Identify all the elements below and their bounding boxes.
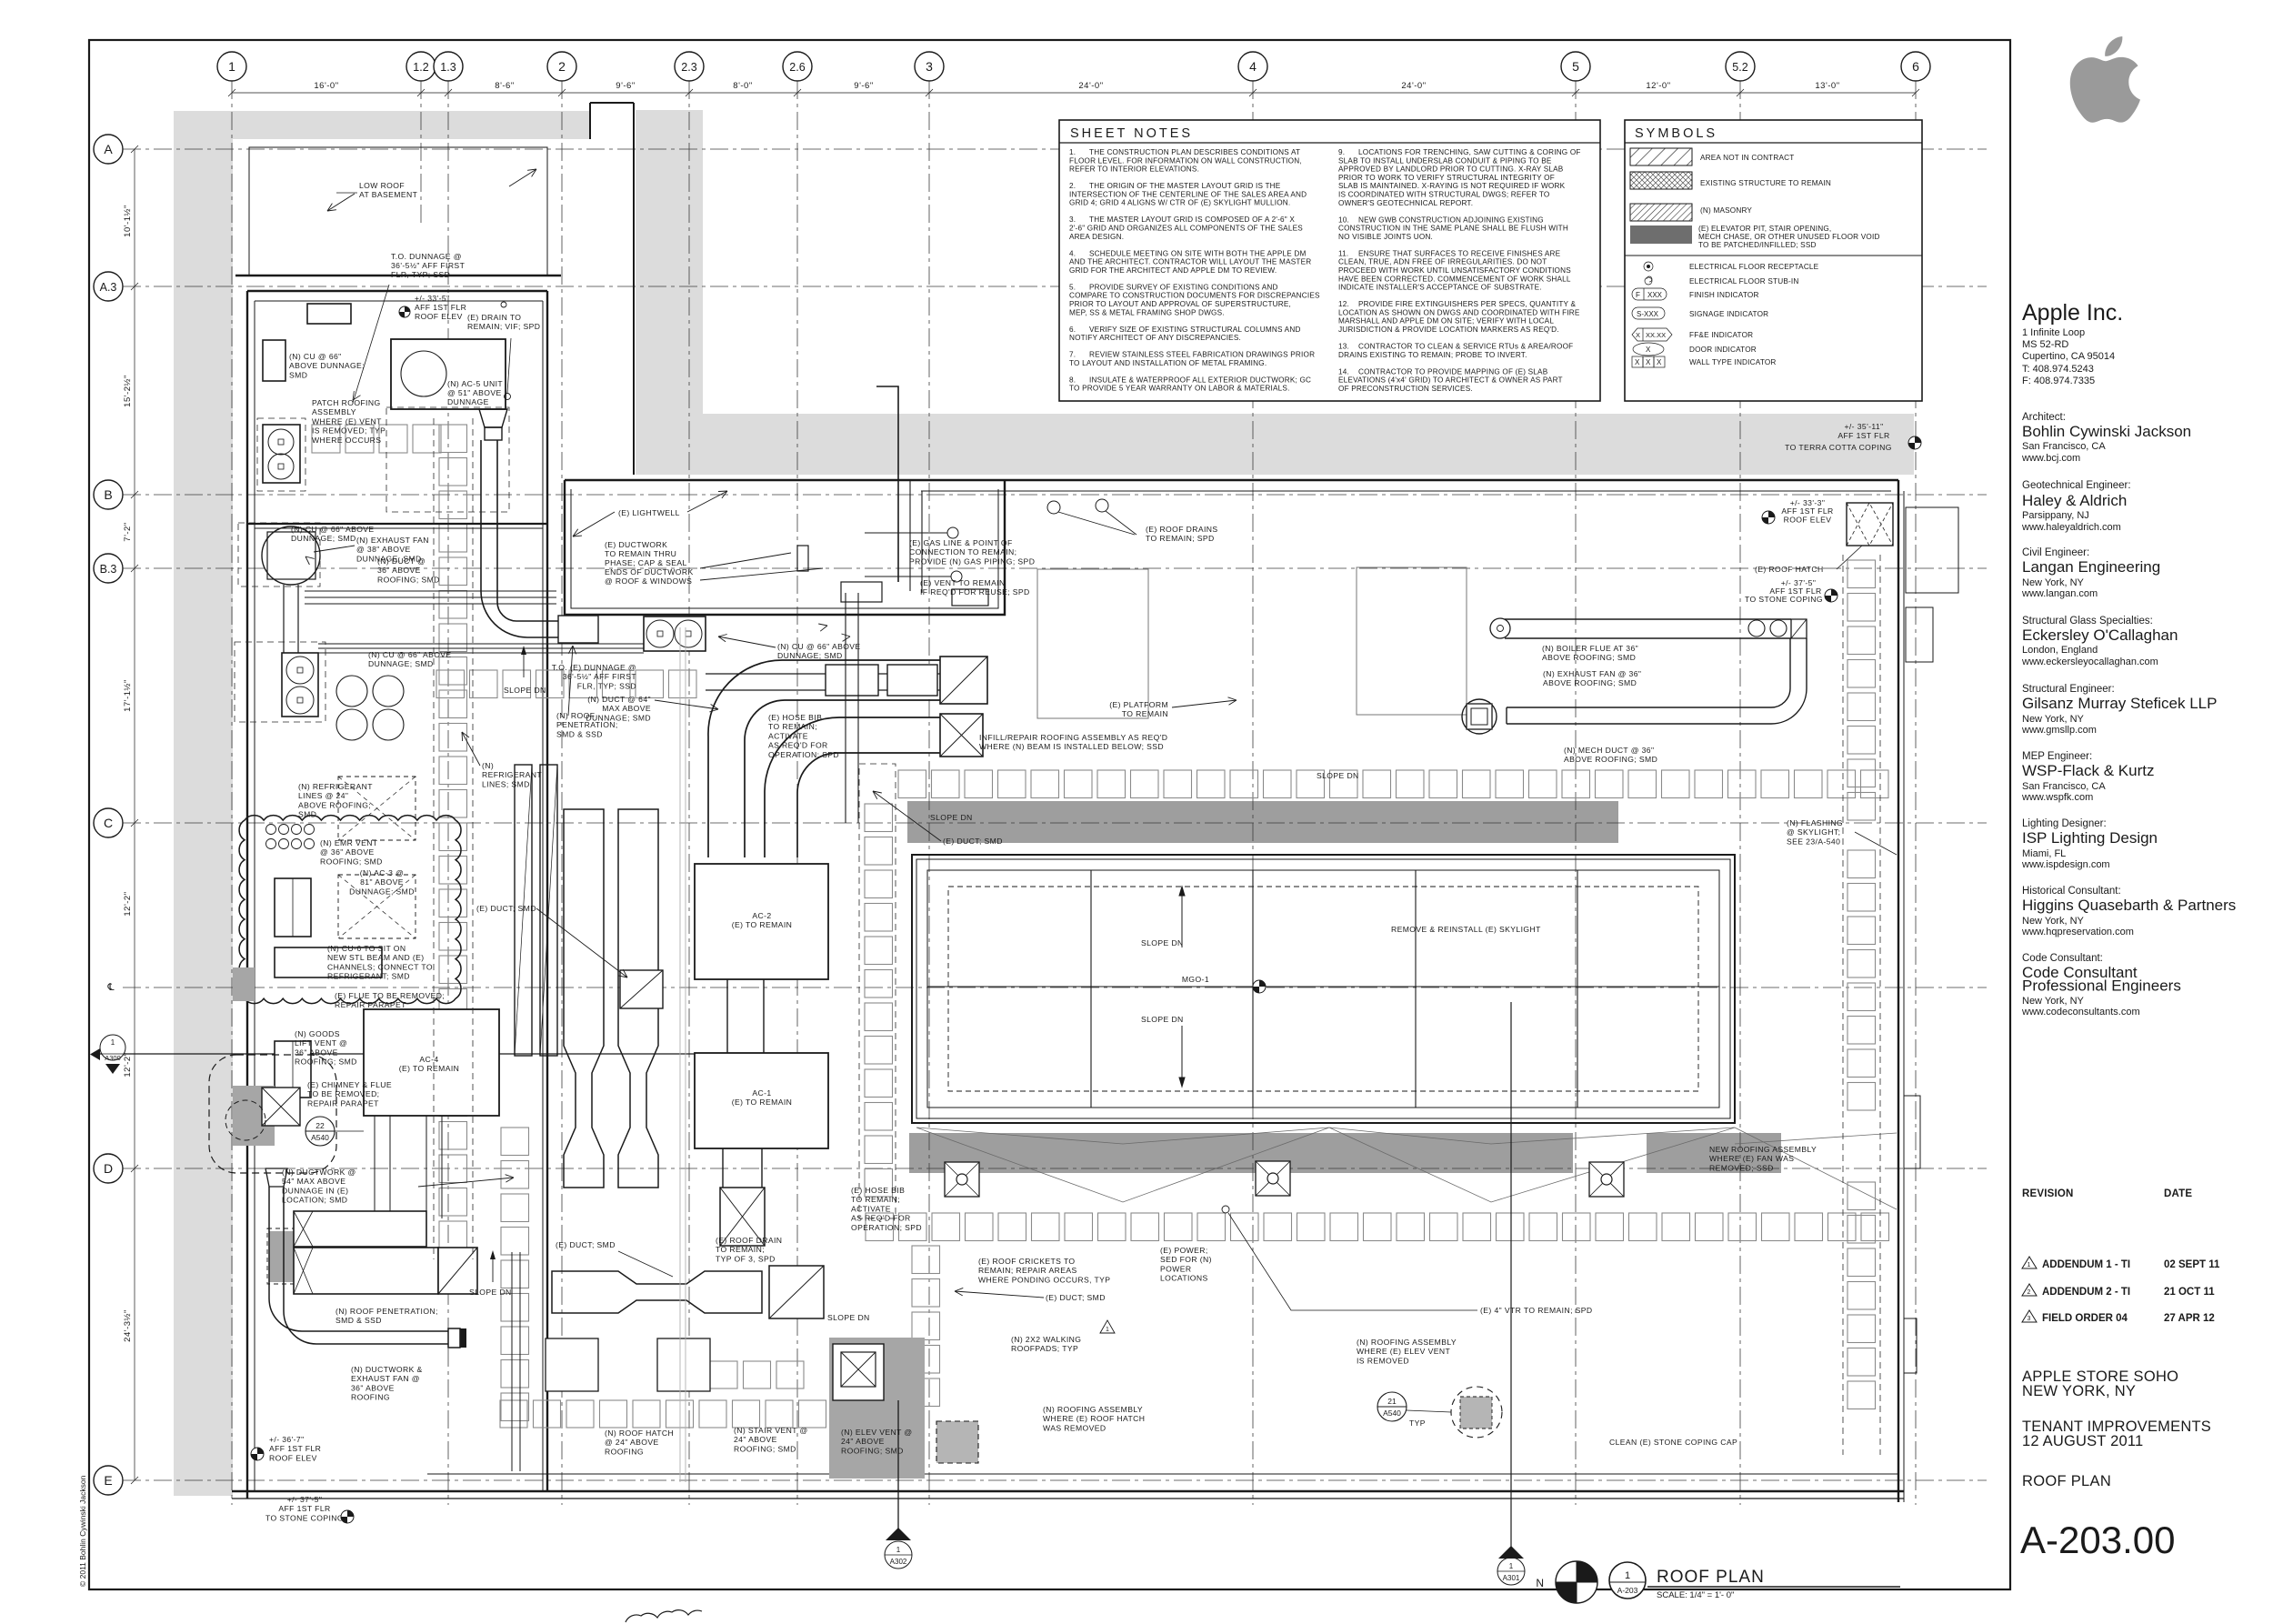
svg-text:SMD: SMD: [289, 370, 307, 379]
svg-text:ACTIVATE: ACTIVATE: [851, 1204, 891, 1213]
svg-text:9'-6": 9'-6": [616, 81, 635, 91]
svg-text:IS REMOVED: IS REMOVED: [1357, 1356, 1409, 1365]
svg-text:FINISH INDICATOR: FINISH INDICATOR: [1689, 291, 1759, 299]
svg-text:1: 1: [111, 1038, 115, 1047]
svg-text:B.3: B.3: [100, 563, 117, 576]
svg-text:6: 6: [1912, 59, 1919, 74]
svg-text:PHASE; CAP & SEAL: PHASE; CAP & SEAL: [605, 558, 687, 567]
svg-text:A-203.00: A-203.00: [2020, 1519, 2175, 1561]
svg-text:(E) TO REMAIN: (E) TO REMAIN: [732, 920, 792, 929]
svg-text:ACTIVATE: ACTIVATE: [768, 731, 808, 740]
svg-text:(E) VENT TO REMAIN: (E) VENT TO REMAIN: [920, 578, 1006, 587]
svg-text:AT BASEMENT: AT BASEMENT: [359, 190, 418, 199]
svg-text:A.3: A.3: [100, 281, 117, 294]
svg-text:SLAB IS MAINTAINED. X-RAYING I: SLAB IS MAINTAINED. X-RAYING IS NOT REQU…: [1338, 182, 1566, 190]
svg-text:CONTRACTOR TO PROVIDE MAPPING: CONTRACTOR TO PROVIDE MAPPING OF (E) SLA…: [1358, 367, 1548, 376]
svg-text:N: N: [1536, 1577, 1544, 1589]
svg-text:Miami, FL: Miami, FL: [2022, 848, 2066, 859]
svg-text:Bohlin Cywinski Jackson: Bohlin Cywinski Jackson: [2022, 423, 2191, 440]
svg-text:ENSURE THAT SURFACES TO RECEIV: ENSURE THAT SURFACES TO RECEIVE FINISHES…: [1358, 249, 1561, 257]
svg-text:ASSEMBLY: ASSEMBLY: [312, 407, 356, 416]
svg-text:ROOF PLAN: ROOF PLAN: [1657, 1568, 1765, 1587]
svg-text:www.gmsllp.com: www.gmsllp.com: [2021, 725, 2097, 736]
svg-text:CLEAN, TRUE, ADN FREE OF IRREG: CLEAN, TRUE, ADN FREE OF IRREGULARITIES.…: [1338, 258, 1547, 266]
svg-text:TO BE PATCHED/INFILLED; SSD: TO BE PATCHED/INFILLED; SSD: [1698, 241, 1817, 249]
svg-text:F: F: [1636, 291, 1640, 299]
svg-text:ENDS OF DUCTWORK: ENDS OF DUCTWORK: [605, 567, 694, 576]
svg-text:3.: 3.: [1069, 216, 1076, 224]
svg-text:TO TERRA COTTA COPING: TO TERRA COTTA COPING: [1785, 443, 1892, 452]
svg-text:ABOVE ROOFING;: ABOVE ROOFING;: [298, 800, 371, 809]
svg-text:Architect:: Architect:: [2022, 412, 2066, 423]
svg-text:2.: 2.: [1069, 182, 1076, 190]
svg-text:AS REQ'D FOR: AS REQ'D FOR: [768, 741, 828, 750]
svg-text:(N) ROOF HATCH: (N) ROOF HATCH: [605, 1429, 674, 1438]
svg-text:PROVIDE FIRE EXTINGUISHERS PER: PROVIDE FIRE EXTINGUISHERS PER SPECS, QU…: [1358, 300, 1577, 308]
svg-text:(N) BOILER FLUE AT 36": (N) BOILER FLUE AT 36": [1542, 644, 1638, 653]
svg-text:SLOPE DN: SLOPE DN: [1141, 938, 1184, 947]
svg-text:24" ABOVE: 24" ABOVE: [734, 1435, 777, 1444]
svg-text:(E) DRAIN TO: (E) DRAIN TO: [467, 313, 521, 322]
svg-text:(E) POWER;: (E) POWER;: [1160, 1246, 1208, 1255]
svg-text:EXHAUST FAN @: EXHAUST FAN @: [351, 1374, 420, 1383]
svg-text:TO REMAIN;: TO REMAIN;: [716, 1245, 765, 1254]
svg-text:NOTIFY ARCHITECT OF ANY DISCRE: NOTIFY ARCHITECT OF ANY DISCREPANCIES.: [1069, 334, 1241, 342]
svg-text:WHERE (E) FAN WAS: WHERE (E) FAN WAS: [1709, 1154, 1794, 1163]
svg-text:LOCATIONS FOR TRENCHING, SAW C: LOCATIONS FOR TRENCHING, SAW CUTTING & C…: [1358, 148, 1581, 156]
svg-text:GRID 4; GRID 4 ALIGNS W/ CTR O: GRID 4; GRID 4 ALIGNS W/ CTR OF (E) SKYL…: [1069, 199, 1290, 207]
svg-text:(E) TO REMAIN: (E) TO REMAIN: [732, 1098, 792, 1107]
svg-text:(E) LIGHTWELL: (E) LIGHTWELL: [618, 508, 680, 517]
svg-text:IS COORDINATED WITH STRUCTURAL: IS COORDINATED WITH STRUCTURAL DWGS; REF…: [1338, 191, 1550, 199]
svg-text:(N) FLASHING: (N) FLASHING: [1787, 818, 1843, 827]
svg-text:NEW GWB CONSTRUCTION ADJOINING: NEW GWB CONSTRUCTION ADJOINING EXISTING: [1358, 216, 1544, 224]
svg-text:SMD & SSD: SMD & SSD: [335, 1316, 382, 1325]
svg-text:3: 3: [2028, 1316, 2031, 1322]
svg-text:(N) GOODS: (N) GOODS: [295, 1029, 340, 1038]
svg-text:San Francisco, CA: San Francisco, CA: [2022, 781, 2106, 792]
svg-text:(N) ELEV VENT @: (N) ELEV VENT @: [841, 1428, 913, 1437]
svg-text:ROOF ELEV: ROOF ELEV: [1784, 515, 1832, 524]
svg-text:36" ABOVE: 36" ABOVE: [295, 1048, 338, 1057]
svg-text:ELECTRICAL FLOOR STUB-IN: ELECTRICAL FLOOR STUB-IN: [1689, 277, 1799, 286]
svg-text:(E) 4" VTR TO REMAIN; SPD: (E) 4" VTR TO REMAIN; SPD: [1480, 1306, 1593, 1315]
svg-text:1: 1: [896, 1546, 901, 1554]
svg-text:ROOFING: ROOFING: [351, 1393, 390, 1402]
svg-text:MEP, SS & METAL FRAMING SHOP D: MEP, SS & METAL FRAMING SHOP DWGS.: [1069, 308, 1225, 316]
svg-text:2: 2: [558, 59, 566, 74]
svg-text:REFRIGERANT: REFRIGERANT: [482, 770, 542, 779]
svg-text:TO REMAIN;: TO REMAIN;: [768, 722, 817, 731]
svg-text:(N): (N): [482, 761, 494, 770]
svg-text:24'-3½": 24'-3½": [123, 1309, 133, 1342]
svg-text:AS REQ'D FOR: AS REQ'D FOR: [851, 1214, 911, 1223]
svg-text:TO STONE COPING: TO STONE COPING: [1745, 595, 1823, 604]
svg-text:36'-5½" AFF FIRST: 36'-5½" AFF FIRST: [391, 261, 466, 270]
svg-text:ABOVE ROOFING; SMD: ABOVE ROOFING; SMD: [1543, 678, 1637, 687]
svg-text:AC-2: AC-2: [752, 911, 771, 920]
svg-text:Code Consultant:: Code Consultant:: [2022, 953, 2103, 964]
svg-text:INFILL/REPAIR ROOFING ASSEMBLY: INFILL/REPAIR ROOFING ASSEMBLY AS REQ'D: [979, 733, 1167, 742]
svg-text:@ 38" ABOVE: @ 38" ABOVE: [356, 545, 411, 554]
svg-text:2: 2: [2028, 1289, 2031, 1296]
svg-text:PATCH ROOFING: PATCH ROOFING: [312, 398, 381, 407]
svg-text:WSP-Flack & Kurtz: WSP-Flack & Kurtz: [2022, 762, 2154, 779]
svg-text:D: D: [104, 1161, 113, 1176]
svg-text:FIELD ORDER 04: FIELD ORDER 04: [2042, 1313, 2128, 1324]
svg-text:WHERE (E) VENT: WHERE (E) VENT: [312, 416, 382, 426]
svg-text:(N) EMR VENT: (N) EMR VENT: [320, 838, 378, 847]
svg-text:9'-6": 9'-6": [854, 81, 873, 91]
svg-text:Langan Engineering: Langan Engineering: [2022, 558, 2160, 576]
svg-text:WHERE (E) ROOF HATCH: WHERE (E) ROOF HATCH: [1043, 1414, 1145, 1423]
svg-text:(E) CHIMNEY & FLUE: (E) CHIMNEY & FLUE: [307, 1080, 392, 1089]
svg-text:7'-2": 7'-2": [123, 522, 133, 541]
svg-text:27 APR 12: 27 APR 12: [2164, 1313, 2215, 1324]
svg-text:A300: A300: [105, 1054, 121, 1062]
svg-text:1: 1: [228, 59, 235, 74]
svg-text:(N) DUCTWORK @: (N) DUCTWORK @: [282, 1168, 356, 1177]
svg-text:DUNNAGE; SMD: DUNNAGE; SMD: [586, 713, 651, 722]
svg-text:+/- 37'-5": +/- 37'-5": [287, 1495, 323, 1504]
svg-text:C: C: [104, 816, 113, 830]
svg-text:(N) CU @ 66" ABOVE: (N) CU @ 66" ABOVE: [291, 525, 375, 534]
svg-text:SLOPE DN: SLOPE DN: [930, 813, 973, 822]
svg-text:AREA DESIGN.: AREA DESIGN.: [1069, 233, 1124, 241]
svg-text:www.codeconsultants.com: www.codeconsultants.com: [2021, 1007, 2140, 1018]
svg-text:(E) ELEVATOR PIT, STAIR OPENIN: (E) ELEVATOR PIT, STAIR OPENING,: [1698, 225, 1831, 233]
svg-text:AREA NOT IN CONTRACT: AREA NOT IN CONTRACT: [1700, 154, 1794, 162]
svg-text:THE CONSTRUCTION PLAN DESCRIBE: THE CONSTRUCTION PLAN DESCRIBES CONDITIO…: [1089, 148, 1300, 156]
svg-text:MECH CHASE, OR OTHER UNUSED FL: MECH CHASE, OR OTHER UNUSED FLOOR VOID: [1698, 233, 1880, 241]
svg-text:(N) DUCT @ 64": (N) DUCT @ 64": [587, 695, 651, 704]
svg-text:MEP Engineer:: MEP Engineer:: [2022, 751, 2092, 762]
svg-text:(N) ROOFING ASSEMBLY: (N) ROOFING ASSEMBLY: [1357, 1338, 1457, 1347]
svg-text:WHERE PONDING OCCURS, TYP: WHERE PONDING OCCURS, TYP: [978, 1275, 1110, 1284]
svg-text:ELEVATIONS (4'x4' GRID) TO ARC: ELEVATIONS (4'x4' GRID) TO ARCHITECT & O…: [1338, 376, 1563, 385]
svg-text:NEW ROOFING ASSEMBLY: NEW ROOFING ASSEMBLY: [1709, 1145, 1817, 1154]
svg-text:ROOFPADS; TYP: ROOFPADS; TYP: [1011, 1344, 1078, 1353]
svg-text:DUNNAGE; SMD: DUNNAGE; SMD: [368, 659, 434, 668]
svg-text:SMD: SMD: [298, 810, 316, 819]
svg-text:(N) CU @ 66" ABOVE: (N) CU @ 66" ABOVE: [777, 642, 861, 651]
svg-text:(N) MASONRY: (N) MASONRY: [1700, 206, 1752, 215]
svg-text:LOW ROOF: LOW ROOF: [359, 181, 405, 190]
svg-text:(N) DUCTWORK &: (N) DUCTWORK &: [351, 1365, 423, 1374]
svg-text:TO REMAIN;: TO REMAIN;: [851, 1195, 900, 1204]
svg-text:ROOFING; SMD: ROOFING; SMD: [841, 1446, 904, 1455]
svg-text:10'-1½": 10'-1½": [123, 205, 133, 237]
svg-text:Structural Engineer:: Structural Engineer:: [2022, 684, 2115, 695]
svg-text:INDICATE INSTALLER'S ACCEPTANC: INDICATE INSTALLER'S ACCEPTANCE OF SUBST…: [1338, 284, 1542, 292]
svg-text:8'-0": 8'-0": [733, 81, 752, 91]
svg-text:A301: A301: [1503, 1574, 1520, 1582]
svg-text:(N) MECH DUCT @ 36": (N) MECH DUCT @ 36": [1564, 746, 1654, 755]
svg-text:X: X: [1646, 346, 1651, 354]
svg-text:(N) REFRIGERANT: (N) REFRIGERANT: [298, 782, 373, 791]
svg-text:5: 5: [1572, 59, 1579, 74]
svg-text:SMD & SSD: SMD & SSD: [556, 729, 603, 738]
svg-text:ISP Lighting Design: ISP Lighting Design: [2022, 829, 2158, 847]
svg-text:www.bcj.com: www.bcj.com: [2021, 453, 2080, 464]
svg-text:WHERE (N) BEAM IS INSTALLED BE: WHERE (N) BEAM IS INSTALLED BELOW; SSD: [979, 742, 1164, 751]
svg-text:LOCATION AS SHOWN ON DWGS AND: LOCATION AS SHOWN ON DWGS AND COORDINATE…: [1338, 308, 1580, 316]
svg-text:Haley & Aldrich: Haley & Aldrich: [2022, 492, 2127, 509]
svg-text:1 Infinite Loop: 1 Infinite Loop: [2022, 327, 2085, 338]
svg-text:(N) EXHAUST FAN @ 36": (N) EXHAUST FAN @ 36": [1543, 669, 1641, 678]
svg-text:A540: A540: [311, 1133, 329, 1142]
svg-text:CONTRACTOR TO CLEAN & SERVICE: CONTRACTOR TO CLEAN & SERVICE RTUs & ARE…: [1358, 343, 1573, 351]
svg-text:CONSTRUCTION IN THE SAME PLANE: CONSTRUCTION IN THE SAME PLANE SHALL BE …: [1338, 225, 1568, 233]
svg-text:ABOVE ROOFING; SMD: ABOVE ROOFING; SMD: [1564, 755, 1657, 764]
svg-text:DUNNAGE; SMD: DUNNAGE; SMD: [291, 534, 356, 543]
svg-text:© 2011 Bohlin Cywinski Jackson: © 2011 Bohlin Cywinski Jackson: [78, 1475, 87, 1587]
svg-text:www.wspfk.com: www.wspfk.com: [2021, 792, 2093, 803]
svg-text:12'-0": 12'-0": [1646, 81, 1670, 91]
svg-text:Professional Engineers: Professional Engineers: [2022, 977, 2181, 995]
svg-text:IF REQ'D FOR REUSE; SPD: IF REQ'D FOR REUSE; SPD: [920, 587, 1030, 596]
svg-text:SLOPE DN: SLOPE DN: [469, 1288, 512, 1297]
svg-text:REMAIN; VIF; SPD: REMAIN; VIF; SPD: [467, 322, 540, 331]
svg-text:A-203: A-203: [1617, 1586, 1638, 1595]
svg-text:4: 4: [1249, 59, 1257, 74]
svg-text:ROOF PLAN: ROOF PLAN: [2022, 1473, 2111, 1489]
svg-text:T.O. DUNNAGE @: T.O. DUNNAGE @: [391, 252, 462, 261]
svg-text:OPERATION; SPD: OPERATION; SPD: [768, 750, 839, 759]
svg-text:15'-2½": 15'-2½": [123, 375, 133, 407]
svg-text:(N) 2X2 WALKING: (N) 2X2 WALKING: [1011, 1335, 1081, 1344]
svg-text:WALL TYPE INDICATOR: WALL TYPE INDICATOR: [1689, 358, 1777, 366]
svg-text:TO BE REMOVED;: TO BE REMOVED;: [307, 1089, 379, 1098]
svg-text:XXX: XXX: [1647, 291, 1663, 299]
svg-text:Cupertino, CA 95014: Cupertino, CA 95014: [2022, 351, 2115, 362]
svg-text:(E) HOSE BIB: (E) HOSE BIB: [851, 1186, 905, 1195]
svg-text:AC-1: AC-1: [752, 1088, 771, 1098]
svg-text:REPAIR PARAPET: REPAIR PARAPET: [307, 1098, 379, 1108]
svg-text:AFF 1ST FLR: AFF 1ST FLR: [278, 1504, 330, 1513]
svg-text:A540: A540: [1383, 1408, 1401, 1418]
svg-text:22: 22: [315, 1121, 325, 1130]
svg-text:@ 36" ABOVE: @ 36" ABOVE: [320, 847, 375, 857]
svg-text:+/- 35'-11": +/- 35'-11": [1844, 422, 1883, 431]
svg-text:San Francisco, CA: San Francisco, CA: [2022, 441, 2106, 452]
svg-text:36" ABOVE: 36" ABOVE: [351, 1383, 395, 1392]
svg-text:12'-2": 12'-2": [123, 1052, 133, 1077]
svg-text:TO LAYOUT AND INSTALLATION OF: TO LAYOUT AND INSTALLATION OF METAL FRAM…: [1069, 359, 1267, 367]
svg-text:(N) STAIR VENT @: (N) STAIR VENT @: [734, 1426, 808, 1435]
svg-text:JURISDICTION & PROVIDE LOCATIO: JURISDICTION & PROVIDE LOCATION MARKERS …: [1338, 326, 1559, 334]
svg-text:(N) ROOF PENETRATION;: (N) ROOF PENETRATION;: [335, 1307, 438, 1316]
svg-text:TO PROVIDE 5 YEAR WARRANTY ON: TO PROVIDE 5 YEAR WARRANTY ON LABOR & MA…: [1069, 385, 1290, 393]
svg-text:www.hqpreservation.com: www.hqpreservation.com: [2021, 927, 2134, 937]
svg-text:DRAINS EXISTING TO REMAIN; PRO: DRAINS EXISTING TO REMAIN; PROBE TO INVE…: [1338, 351, 1527, 359]
svg-text:ADDENDUM 1 - TI: ADDENDUM 1 - TI: [2042, 1259, 2130, 1270]
svg-text:MGO-1: MGO-1: [1182, 975, 1209, 984]
svg-text:FF&E INDICATOR: FF&E INDICATOR: [1689, 331, 1753, 339]
svg-text:AFF 1ST FLR: AFF 1ST FLR: [415, 303, 466, 312]
svg-text:New York, NY: New York, NY: [2022, 996, 2085, 1007]
svg-text:NEW YORK, NY: NEW YORK, NY: [2022, 1383, 2136, 1399]
svg-text:ROOF ELEV: ROOF ELEV: [415, 312, 463, 321]
svg-text:1.2: 1.2: [413, 61, 428, 74]
svg-text:(E) PLATFORM: (E) PLATFORM: [1109, 700, 1168, 709]
svg-text:Geotechnical Engineer:: Geotechnical Engineer:: [2022, 480, 2131, 491]
svg-text:PRIOR TO LAYOUT AND APPROVAL O: PRIOR TO LAYOUT AND APPROVAL OF SUPERSTR…: [1069, 300, 1291, 308]
svg-text:(E) DUCT; SMD: (E) DUCT; SMD: [476, 904, 536, 913]
svg-text:(E) FLUE TO BE REMOVED;: (E) FLUE TO BE REMOVED;: [335, 991, 445, 1000]
svg-text:X: X: [1646, 358, 1651, 366]
svg-text:(E) DUCTWORK: (E) DUCTWORK: [605, 540, 667, 549]
svg-text:ADDENDUM 2 - TI: ADDENDUM 2 - TI: [2042, 1287, 2130, 1298]
svg-text:X: X: [1636, 331, 1640, 339]
svg-text:REPAIR PARAPET: REPAIR PARAPET: [335, 1000, 406, 1009]
svg-text:OF PRECONSTRUCTION SERVICES.: OF PRECONSTRUCTION SERVICES.: [1338, 385, 1473, 393]
svg-text:www.langan.com: www.langan.com: [2021, 588, 2098, 599]
svg-text:14.: 14.: [1338, 367, 1349, 376]
svg-text:WAS REMOVED: WAS REMOVED: [1043, 1423, 1106, 1432]
svg-text:PROVIDE SURVEY OF EXISTING CON: PROVIDE SURVEY OF EXISTING CONDITIONS AN…: [1089, 283, 1278, 291]
svg-text:LIFT VENT @: LIFT VENT @: [295, 1038, 347, 1048]
svg-text:T.O. (E) DUNNAGE @: T.O. (E) DUNNAGE @: [552, 663, 636, 672]
svg-text:SLOPE DN: SLOPE DN: [1141, 1015, 1184, 1024]
svg-text:NO VISIBLE JOINTS UON.: NO VISIBLE JOINTS UON.: [1338, 233, 1433, 241]
svg-text:AC-4: AC-4: [419, 1055, 438, 1064]
svg-text:MAX ABOVE: MAX ABOVE: [602, 704, 651, 713]
svg-text:1.3: 1.3: [440, 61, 456, 74]
svg-text:SED FOR (N): SED FOR (N): [1160, 1255, 1212, 1264]
svg-text:XX.XX: XX.XX: [1646, 331, 1666, 339]
svg-text:CLEAN (E) STONE COPING CAP: CLEAN (E) STONE COPING CAP: [1609, 1438, 1737, 1447]
svg-text:ROOFING; SMD: ROOFING; SMD: [295, 1058, 357, 1067]
svg-text:LOCATIONS: LOCATIONS: [1160, 1274, 1208, 1283]
svg-text:81" ABOVE: 81" ABOVE: [360, 877, 404, 887]
svg-text:17'-1½": 17'-1½": [123, 679, 133, 712]
svg-text:6.: 6.: [1069, 326, 1076, 334]
svg-text:2.6: 2.6: [789, 61, 805, 74]
svg-text:(E) ROOF DRAIN: (E) ROOF DRAIN: [716, 1236, 782, 1245]
svg-text:@ 51" ABOVE: @ 51" ABOVE: [447, 388, 502, 397]
svg-text:COMPARE TO CONSTRUCTION DOCUME: COMPARE TO CONSTRUCTION DOCUMENTS FOR DI…: [1069, 292, 1320, 300]
svg-text:New York, NY: New York, NY: [2022, 577, 2085, 588]
svg-text:5.2: 5.2: [1732, 61, 1747, 74]
svg-text:PROVIDE (N) GAS PIPING; SPD: PROVIDE (N) GAS PIPING; SPD: [909, 556, 1035, 566]
svg-text:11.: 11.: [1338, 249, 1348, 257]
svg-text:+/- 36'-7": +/- 36'-7": [269, 1435, 305, 1444]
svg-text:REMOVED; SSD: REMOVED; SSD: [1709, 1163, 1774, 1172]
svg-text:DUNNAGE: DUNNAGE: [447, 397, 489, 406]
svg-text:A302: A302: [890, 1558, 907, 1566]
svg-text:OWNER'S GEOTECHNICAL REPORT.: OWNER'S GEOTECHNICAL REPORT.: [1338, 199, 1473, 207]
svg-text:(E) ROOF HATCH: (E) ROOF HATCH: [1755, 565, 1824, 574]
svg-text:ROOFING; SMD: ROOFING; SMD: [320, 857, 383, 866]
svg-text:8'-6": 8'-6": [495, 81, 514, 91]
svg-text:SCHEDULE MEETING ON SITE WITH: SCHEDULE MEETING ON SITE WITH BOTH THE A…: [1089, 249, 1307, 257]
svg-text:AFF 1ST FLR: AFF 1ST FLR: [269, 1444, 321, 1453]
svg-text:EXISTING STRUCTURE TO REMAIN: EXISTING STRUCTURE TO REMAIN: [1700, 179, 1831, 187]
svg-text:VERIFY SIZE OF EXISTING STRUCT: VERIFY SIZE OF EXISTING STRUCTURAL COLUM…: [1089, 326, 1301, 334]
svg-text:24" ABOVE: 24" ABOVE: [841, 1437, 885, 1446]
svg-text:13.: 13.: [1338, 343, 1349, 351]
svg-text:PROCEED WITH WORK UNTIL UNSATI: PROCEED WITH WORK UNTIL UNSATISFACTORY C…: [1338, 266, 1571, 275]
svg-text:GRID FOR THE ARCHITECT AND APP: GRID FOR THE ARCHITECT AND APPLE DM TO R…: [1069, 266, 1277, 275]
svg-text:SLAB TO INSTALL UNDERSLAB COND: SLAB TO INSTALL UNDERSLAB CONDUIT & PIPI…: [1338, 156, 1552, 165]
svg-text:APPROVED BY LANDLORD PRIOR TO: APPROVED BY LANDLORD PRIOR TO CUTTING. X…: [1338, 165, 1564, 174]
svg-text:(E) DUCT; SMD: (E) DUCT; SMD: [1046, 1293, 1106, 1302]
svg-text:TO REMAIN: TO REMAIN: [1122, 709, 1168, 718]
svg-text:@ SKYLIGHT;: @ SKYLIGHT;: [1787, 827, 1840, 837]
svg-text:LINES; SMD: LINES; SMD: [482, 779, 530, 788]
svg-text:DUNNAGE IN (E): DUNNAGE IN (E): [282, 1186, 348, 1195]
svg-text:LINES @ 24": LINES @ 24": [298, 791, 348, 800]
svg-text:ROOFING: ROOFING: [605, 1447, 644, 1456]
svg-text:AFF 1ST FLR: AFF 1ST FLR: [1837, 431, 1889, 440]
svg-text:(N) DUCT @: (N) DUCT @: [377, 556, 426, 566]
svg-text:(E) DUCT; SMD: (E) DUCT; SMD: [556, 1240, 616, 1249]
svg-text:(N) CU @ 66" ABOVE: (N) CU @ 66" ABOVE: [368, 650, 452, 659]
svg-text:24'-0": 24'-0": [1401, 81, 1426, 91]
svg-text:NEW STL BEAM AND (E): NEW STL BEAM AND (E): [327, 953, 425, 962]
svg-text:New York, NY: New York, NY: [2022, 714, 2085, 725]
svg-text:S-XXX: S-XXX: [1637, 310, 1659, 318]
svg-text:+/- 33'-5": +/- 33'-5": [415, 294, 450, 303]
svg-text:@ ROOF & WINDOWS: @ ROOF & WINDOWS: [605, 576, 692, 586]
svg-text:(E) DUCT; SMD: (E) DUCT; SMD: [943, 837, 1003, 846]
svg-text:21: 21: [1387, 1397, 1397, 1406]
svg-text:24'-0": 24'-0": [1078, 81, 1103, 91]
svg-text:(E) ROOF CRICKETS TO: (E) ROOF CRICKETS TO: [978, 1257, 1076, 1266]
svg-text:36" ABOVE: 36" ABOVE: [377, 566, 421, 575]
svg-text:TO REMAIN THRU: TO REMAIN THRU: [605, 549, 676, 558]
svg-text:T: 408.974.5243: T: 408.974.5243: [2022, 364, 2094, 375]
svg-text:MARSHALL AND APPLE DM ON SITE;: MARSHALL AND APPLE DM ON SITE; VERIFY WI…: [1338, 317, 1554, 326]
svg-text:OPERATION; SPD: OPERATION; SPD: [851, 1223, 922, 1232]
svg-text:(N) CU @ 66": (N) CU @ 66": [289, 352, 342, 361]
svg-text:Lighting Designer:: Lighting Designer:: [2022, 818, 2107, 829]
svg-text:SIGNAGE INDICATOR: SIGNAGE INDICATOR: [1689, 310, 1768, 318]
svg-text:1.: 1.: [1069, 148, 1076, 156]
svg-text:WHERE (E) ELEV VENT: WHERE (E) ELEV VENT: [1357, 1347, 1450, 1356]
svg-text:2.3: 2.3: [681, 61, 696, 74]
svg-text:Higgins Quasebarth & Partners: Higgins Quasebarth & Partners: [2022, 897, 2236, 914]
svg-text:5.: 5.: [1069, 283, 1076, 291]
svg-text:(N) EXHAUST FAN: (N) EXHAUST FAN: [356, 536, 429, 545]
svg-text:FLR, TYP; SSD: FLR, TYP; SSD: [577, 681, 636, 690]
svg-text:SCALE: 1/4" = 1'- 0": SCALE: 1/4" = 1'- 0": [1657, 1590, 1734, 1600]
svg-text:@ 24" ABOVE: @ 24" ABOVE: [605, 1438, 659, 1447]
svg-text:36'-5½" AFF FIRST: 36'-5½" AFF FIRST: [563, 672, 637, 681]
svg-text:16'-0": 16'-0": [314, 81, 338, 91]
svg-text:7.: 7.: [1069, 351, 1076, 359]
svg-text:ELECTRICAL FLOOR RECEPTACLE: ELECTRICAL FLOOR RECEPTACLE: [1689, 263, 1819, 271]
svg-text:REVIEW STAINLESS STEEL FABRICA: REVIEW STAINLESS STEEL FABRICATION DRAWI…: [1089, 351, 1315, 359]
svg-text:INSULATE & WATERPROOF ALL EXTE: INSULATE & WATERPROOF ALL EXTERIOR DUCTW…: [1089, 376, 1311, 384]
svg-text:ROOF ELEV: ROOF ELEV: [269, 1453, 317, 1462]
svg-text:Eckersley O'Callaghan: Eckersley O'Callaghan: [2022, 627, 2178, 644]
svg-text:SLOPE DN: SLOPE DN: [827, 1313, 870, 1322]
svg-text:(N) ROOFING ASSEMBLY: (N) ROOFING ASSEMBLY: [1043, 1405, 1143, 1414]
svg-text:PRIOR TO WORK TO VERIFY STRUCT: PRIOR TO WORK TO VERIFY STRUCTURAL INTEG…: [1338, 174, 1555, 182]
svg-text:London, England: London, England: [2022, 645, 2098, 656]
svg-text:1: 1: [1509, 1562, 1514, 1570]
svg-text:13'-0": 13'-0": [1815, 81, 1839, 91]
svg-text:FLOOR LEVEL. FOR INFORMATION O: FLOOR LEVEL. FOR INFORMATION ON WALL CON…: [1069, 156, 1302, 165]
svg-text:(E) GAS LINE & POINT OF: (E) GAS LINE & POINT OF: [909, 538, 1013, 547]
svg-text:REFER TO INTERIOR ELEVATIONS.: REFER TO INTERIOR ELEVATIONS.: [1069, 165, 1199, 174]
svg-text:(N) AC-5 UNIT: (N) AC-5 UNIT: [447, 379, 503, 388]
svg-text:(N) AC-3 @: (N) AC-3 @: [360, 868, 405, 877]
svg-text:1: 1: [2028, 1262, 2031, 1268]
svg-text:Structural Glass Specialties:: Structural Glass Specialties:: [2022, 616, 2153, 627]
